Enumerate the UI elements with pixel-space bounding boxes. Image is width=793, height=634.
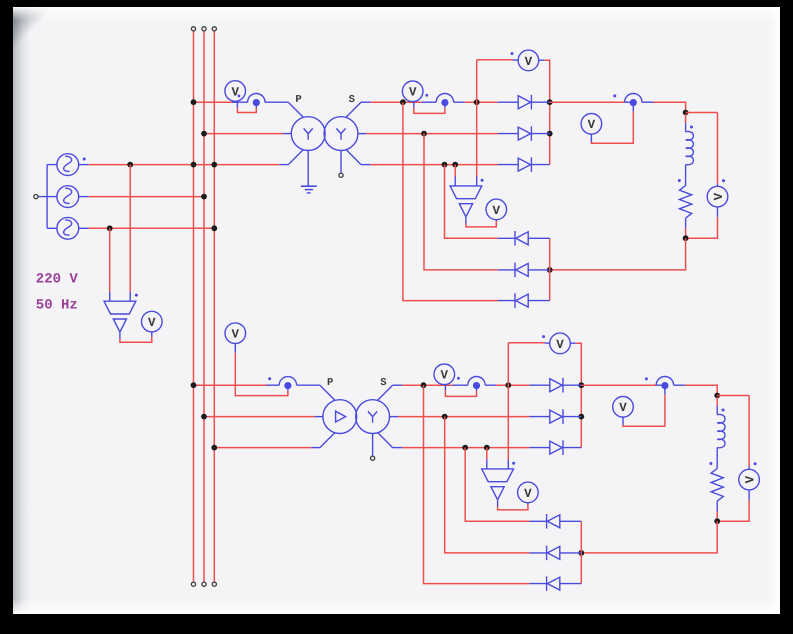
voltmeter V11 load [739, 469, 760, 490]
polarity mark V dc top [511, 52, 514, 55]
wire bottom row3 [403, 102, 550, 300]
wire secondary row3 [402, 447, 550, 449]
wire load lead top [685, 114, 687, 132]
T2 secondary neutral terminal [371, 456, 375, 460]
node row2 riser tap [421, 131, 427, 137]
wire top rail left [508, 342, 550, 344]
polarity mark source VA [83, 158, 86, 161]
voltmeter V8 secondary [434, 364, 455, 385]
polarity mark V load [722, 179, 725, 182]
T2 secondary mid lead [390, 416, 399, 418]
diode D12 [547, 576, 560, 591]
node rail row2 [578, 414, 584, 420]
wire load top to meter branch [717, 395, 749, 397]
polarity mark VS [481, 179, 484, 182]
polarity mark V1 [238, 95, 241, 98]
node phase A - bus1 [191, 162, 197, 168]
polarity mark A out [613, 94, 616, 97]
wire phase A [79, 164, 289, 166]
svg-text:P: P [327, 377, 333, 389]
wire bottom row2 [424, 134, 550, 270]
voltmeter V1 primary [225, 81, 246, 102]
node phase A - sensor tap [127, 162, 133, 168]
voltmeter V2 secondary [402, 81, 423, 102]
polarity mark VS [512, 462, 515, 465]
wire bus3 to primary row3 lower [214, 447, 320, 449]
diode D11 [547, 546, 560, 561]
wire meter branch bottom [686, 207, 718, 238]
svg-text:V: V [493, 204, 501, 218]
voltmeter V5 load [707, 186, 728, 207]
wire top rail right [539, 60, 550, 164]
svg-text:V: V [231, 85, 239, 99]
T2 primary bottom lead [320, 433, 335, 448]
wire load lead bottom [716, 501, 718, 521]
voltmeter V7 primary lower [225, 323, 246, 344]
three-phase bus line 2 [203, 31, 205, 582]
diode D1 cathode wire [531, 101, 549, 103]
node bus2 row2 [201, 131, 207, 137]
T1 secondary bottom lead [346, 149, 371, 164]
voltmeter V6 rect [486, 199, 507, 220]
node row3 riser tap [462, 445, 468, 451]
wire meter branch down [748, 396, 750, 470]
node row1 vline tap [474, 99, 480, 105]
wire bottom row2 [445, 417, 582, 553]
transformer T1 primary winding [291, 117, 325, 151]
svg-text:220 V: 220 V [36, 272, 79, 288]
wire bus2 to primary row2 lower [204, 416, 315, 418]
wire bottom row3 [424, 385, 582, 583]
wire A-V loop output [623, 389, 665, 426]
T2 secondary bottom lead [378, 432, 403, 447]
polarity mark inductor [690, 126, 693, 129]
three-phase bus line 3 [213, 31, 215, 582]
diode D10 [547, 514, 560, 529]
svg-text:S: S [349, 94, 355, 106]
node return rail [578, 550, 584, 556]
diode D6 [515, 293, 528, 308]
T1 primary top lead [288, 102, 303, 117]
source neutral wire [38, 165, 57, 229]
diode D8 [550, 409, 563, 424]
node bus1 row1 [191, 99, 197, 105]
node phase C - sensor tap [107, 225, 113, 231]
wire secondary row2 [398, 416, 550, 418]
wire bus2 to primary row2 [204, 133, 283, 135]
three-phase bus line 1 [193, 31, 195, 582]
ammeter A1 primary [248, 93, 265, 106]
svg-text:V: V [148, 316, 156, 330]
wire V-A loop secondary [414, 102, 445, 114]
bus 3 bottom terminal [212, 582, 216, 586]
wire V-line vertical [476, 60, 478, 186]
wire dc output row [581, 385, 717, 395]
svg-text:V: V [588, 118, 596, 132]
svg-text:V: V [441, 369, 449, 383]
wire bottom row1 [445, 165, 550, 239]
wire sensor tap lead [486, 448, 488, 469]
diode D1 [518, 95, 531, 110]
wire secondary row1 [402, 384, 550, 386]
svg-text:S: S [380, 377, 386, 389]
node bus3 row3 lower [211, 445, 217, 451]
node row1 vline tap [505, 382, 511, 388]
bus 1 bottom terminal [191, 582, 195, 586]
diode D2 cathode wire [531, 133, 549, 135]
neutral terminal [34, 195, 38, 199]
resistor R1 [680, 186, 692, 219]
diode D3 [518, 157, 531, 172]
node phase C - bus3 [211, 225, 217, 231]
node row3 riser tap [442, 162, 448, 168]
diode D5 [515, 263, 528, 278]
node phase B - bus2 [201, 194, 207, 200]
voltage sensor VS3 [482, 469, 514, 500]
voltmeter V12 rect [518, 482, 539, 503]
transformer T1 secondary winding [324, 117, 358, 151]
ammeter A4 primary lower [279, 377, 296, 390]
voltmeter V10 output [613, 397, 634, 418]
polarity mark V secondary [457, 377, 460, 380]
node rail row1 [578, 382, 584, 388]
polarity mark resistor [709, 462, 712, 465]
wire sensor riser from phase C [109, 228, 111, 301]
polarity mark V secondary [425, 94, 428, 97]
wire V1-ammeter loop [237, 102, 256, 113]
bus 1 top terminal [191, 27, 195, 31]
wire return rail down [581, 521, 717, 553]
ammeter A6 output [656, 377, 673, 390]
node load top [714, 393, 720, 399]
inductor L1 [686, 131, 694, 164]
svg-text:V: V [524, 487, 532, 501]
T1 secondary mid lead [358, 133, 367, 135]
wire phase C [79, 227, 215, 229]
wire V7 long lead loop [235, 344, 288, 396]
node bus1 row1 lower [191, 382, 197, 388]
diode D7 cathode wire [563, 384, 581, 386]
polarity mark A out [645, 377, 648, 380]
wire meter branch down [717, 113, 719, 187]
wire load top to meter branch [686, 112, 718, 114]
wire anode rail vertical [580, 521, 582, 583]
voltage sensor VS1 [104, 301, 136, 332]
wire dc output row [550, 102, 686, 112]
T1 secondary top lead [346, 102, 371, 117]
diode D9 [550, 440, 563, 455]
svg-text:V: V [712, 192, 726, 200]
wire V-A loop secondary [445, 385, 476, 397]
wire secondary row2 [366, 133, 518, 135]
diode D3 cathode wire [531, 164, 549, 166]
T2 secondary top lead [378, 385, 403, 400]
wire bottom row1 [465, 448, 581, 522]
polarity mark A4 [268, 377, 271, 380]
ammeter A2 secondary [436, 93, 453, 106]
inductor L2 [717, 414, 725, 447]
voltmeter V9 dc top [550, 333, 571, 354]
wire bus1 to primary row1 [194, 101, 289, 103]
node row1 riser tap [400, 99, 406, 105]
ammeter A5 secondary [468, 376, 485, 389]
voltmeter V-source [142, 311, 163, 332]
polarity mark V load [754, 462, 757, 465]
wire load lead bottom [685, 218, 687, 238]
diode D8 cathode wire [563, 416, 581, 418]
svg-text:V: V [525, 55, 533, 69]
wire phase B [79, 196, 204, 198]
node row1 riser tap [421, 382, 427, 388]
ground symbol [301, 151, 317, 193]
wire meter branch bottom [717, 490, 749, 521]
T1 secondary neutral terminal [339, 173, 343, 177]
wire sensor tap lead [454, 165, 456, 186]
AC source VB [57, 186, 79, 208]
node bus2 row2 lower [201, 414, 207, 420]
wire A-V loop output [591, 106, 633, 143]
wire anode rail vertical [549, 238, 551, 300]
svg-text:50 Hz: 50 Hz [36, 298, 78, 314]
svg-text:V: V [232, 328, 240, 342]
node phase A - bus3 [211, 162, 217, 168]
transformer T2 secondary winding [356, 400, 390, 434]
wire VS to meter [466, 217, 496, 227]
polarity mark VS1 [135, 294, 138, 297]
T2 secondary neutral lead [372, 434, 374, 456]
voltmeter V4 output [581, 114, 602, 135]
svg-text:V: V [619, 401, 627, 415]
T1 primary bottom lead [288, 150, 303, 165]
wire secondary row1 [371, 101, 519, 103]
T1 secondary neutral lead [340, 151, 342, 173]
wire inductor to resistor [716, 448, 718, 469]
polarity mark resistor [678, 179, 681, 182]
wire bus1 to primary row1 (lower) [194, 384, 320, 386]
T2 primary mid lead [315, 416, 323, 418]
node row2 riser tap [442, 414, 448, 420]
node load bottom [683, 235, 689, 241]
bus 3 top terminal [212, 27, 216, 31]
wire VS to meter [498, 500, 528, 510]
transformer T2 primary winding [323, 400, 357, 434]
AC source VC [57, 217, 79, 239]
wire VS1 to meter [120, 332, 152, 342]
diode D4 [515, 231, 528, 246]
node load bottom [714, 518, 720, 524]
node row3 sensor tap [484, 445, 490, 451]
diode D7 [550, 378, 563, 393]
bus 2 top terminal [202, 27, 206, 31]
wire inductor to resistor [685, 165, 687, 186]
svg-text:V: V [409, 86, 417, 100]
voltmeter V3 dc top [518, 50, 539, 71]
ammeter A3 output [625, 93, 642, 106]
wire return rail down [550, 238, 686, 270]
wire top rail right [570, 343, 581, 447]
node rail row1 [547, 99, 553, 105]
svg-text:V: V [744, 475, 758, 483]
svg-text:P: P [295, 94, 301, 106]
bus 2 bottom terminal [202, 582, 206, 586]
wire load lead top [716, 397, 718, 415]
polarity mark inductor [722, 409, 725, 412]
node load top [683, 110, 689, 116]
T1 primary mid lead [283, 133, 291, 135]
AC source VA [57, 154, 79, 176]
wire sensor riser from phase A [129, 165, 131, 302]
diode D9 cathode wire [563, 447, 581, 449]
node rail row2 [547, 131, 553, 137]
wire V-line vertical [507, 343, 509, 469]
node row3 sensor tap [452, 162, 458, 168]
wire secondary row3 [371, 164, 519, 166]
T2 primary top lead [320, 385, 335, 400]
svg-text:V: V [556, 338, 564, 352]
node return rail [547, 267, 553, 273]
diode D2 [518, 126, 531, 141]
resistor R2 [711, 469, 723, 502]
wire top rail left [477, 59, 519, 61]
polarity mark V dc top [542, 335, 545, 338]
voltage sensor VS2 [450, 186, 482, 217]
